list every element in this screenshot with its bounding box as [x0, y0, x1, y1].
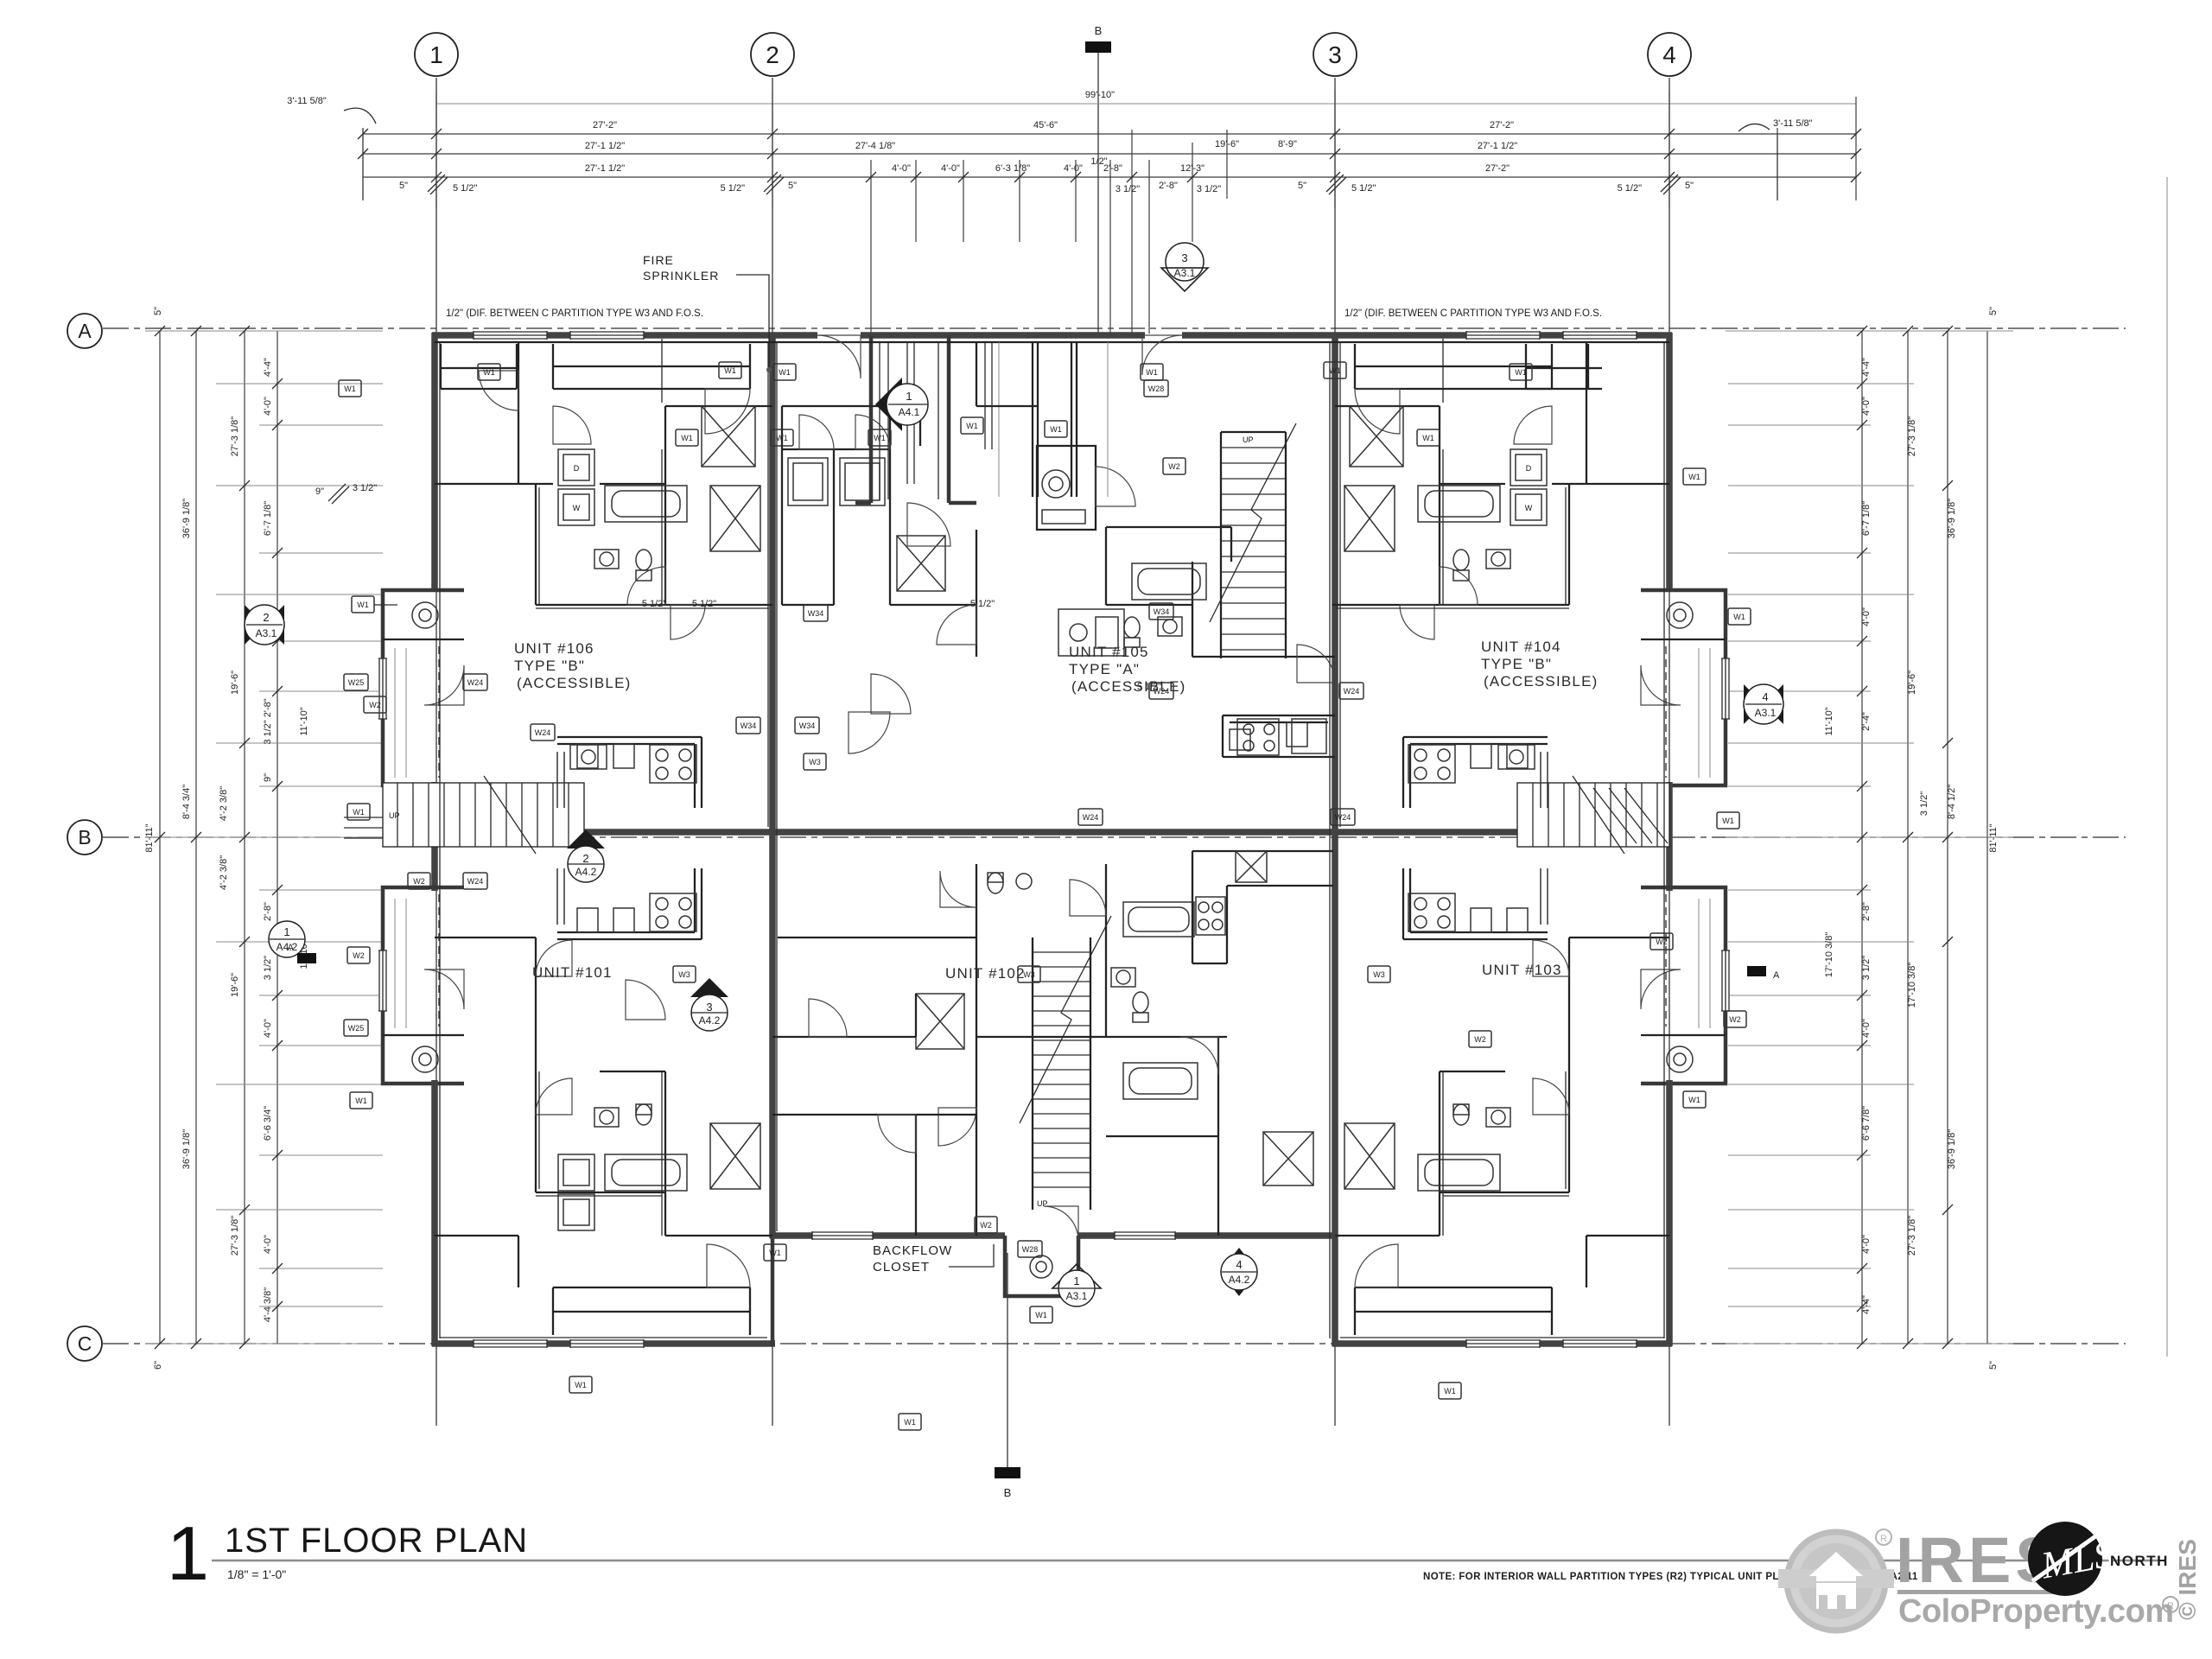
svg-text:3 1/2": 3 1/2" [1116, 184, 1140, 194]
tag W2 interior b [408, 873, 430, 889]
unit105 laundry inner doors [799, 415, 834, 449]
svg-text:W2: W2 [353, 951, 365, 960]
svg-text:4: 4 [1762, 690, 1768, 703]
unit105 stair rails [1221, 432, 1286, 658]
tag V1 h [1141, 364, 1163, 380]
unit103 closet band [1355, 1287, 1552, 1335]
svg-text:W1: W1 [769, 1249, 781, 1257]
grid bubble 1 [415, 33, 458, 76]
unit101 cabinets [557, 868, 634, 932]
tag W1 j [1510, 364, 1532, 380]
window bottom wall 3 [1466, 1339, 1540, 1348]
svg-text:1: 1 [283, 925, 289, 938]
title rule [212, 1560, 2160, 1562]
tag W1 u [773, 364, 796, 380]
svg-text:W25: W25 [348, 1024, 365, 1033]
tag W2 r [1650, 933, 1673, 950]
exterior bottom wall left block [432, 1340, 775, 1347]
window u102 south 1 [812, 1231, 873, 1240]
unit104 laundry stack [1510, 449, 1547, 525]
tag W2 left wall c [347, 947, 370, 963]
svg-text:W: W [1525, 504, 1533, 512]
tag W2 s [975, 1217, 997, 1233]
svg-text:W3: W3 [1373, 970, 1385, 979]
unit102 backflow fixture [1030, 1255, 1052, 1278]
IRES underline [1897, 1590, 2058, 1594]
party wall row B left block [383, 829, 772, 836]
svg-text:2: 2 [766, 41, 779, 68]
dimension line row 2 [363, 133, 1856, 135]
svg-text:W1: W1 [874, 434, 886, 442]
svg-text:81'-11": 81'-11" [1988, 823, 1999, 852]
svg-text:27'-2": 27'-2" [1490, 120, 1514, 130]
unit101 bedroom partitions [435, 938, 536, 1071]
svg-text:2'-8": 2'-8" [1159, 181, 1178, 191]
unit104 linen closet [1344, 486, 1395, 551]
svg-text:W: W [573, 504, 581, 512]
unit105 entry bath door [1096, 467, 1135, 506]
svg-text:W1: W1 [1515, 368, 1527, 377]
tag W3 mid b [1018, 966, 1040, 982]
svg-text:8'-4 1/2": 8'-4 1/2" [1947, 785, 1957, 819]
svg-text:W28: W28 [1022, 1245, 1039, 1254]
tag W1 p [764, 1244, 786, 1261]
unit101 stove [650, 893, 696, 931]
unit101 linen closet [710, 1123, 760, 1189]
svg-text:4'-2 3/8": 4'-2 3/8" [219, 855, 229, 890]
svg-text:5 1/2": 5 1/2" [642, 599, 666, 609]
svg-text:© IRES: © IRES [2174, 1539, 2201, 1620]
tag W1 left wall a [352, 596, 374, 613]
unit103 bath cluster [1335, 1071, 1569, 1236]
window top wall 4 [1563, 331, 1637, 340]
svg-text:19'-6": 19'-6" [230, 671, 240, 695]
row bubble B [67, 820, 102, 855]
svg-text:W1: W1 [575, 1381, 587, 1389]
svg-text:4'-0": 4'-0" [263, 1235, 273, 1254]
unit101 bath cluster [536, 1071, 772, 1236]
callout 1/A3.1 [1052, 1264, 1101, 1288]
svg-text:A3.1: A3.1 [1174, 267, 1196, 279]
unit104 entry door arc [1355, 389, 1400, 434]
svg-text:W2: W2 [1656, 938, 1668, 946]
svg-text:4'-2 3/8": 4'-2 3/8" [219, 786, 229, 821]
svg-text:W1: W1 [1688, 1096, 1700, 1104]
svg-text:4'-0": 4'-0" [263, 397, 273, 416]
unit106 bedroom door arcs [479, 371, 518, 410]
tag W28 t [1018, 1241, 1042, 1257]
BUILDING_WALLS [378, 331, 1730, 1348]
left dim chain lines [160, 331, 277, 1344]
svg-text:17'-10 3/8": 17'-10 3/8" [1907, 963, 1917, 1008]
porch rails top center [880, 342, 992, 499]
unit101 laundry stack [558, 1154, 594, 1230]
unit102 wc pair upper [988, 873, 1003, 893]
svg-text:BACKFLOW: BACKFLOW [873, 1243, 952, 1258]
svg-text:6'-7 1/8": 6'-7 1/8" [1861, 501, 1872, 536]
svg-text:3 1/2": 3 1/2" [1919, 791, 1929, 816]
unit104 cabinets [1471, 744, 1548, 808]
svg-text:W1: W1 [353, 808, 365, 817]
unit105 island counter [1058, 609, 1124, 656]
tag W2 stair [1163, 458, 1185, 474]
svg-text:W24: W24 [535, 728, 551, 737]
svg-text:W24: W24 [467, 678, 484, 687]
row line A [103, 327, 2126, 329]
row line B [103, 836, 2126, 838]
unit106 kitchen counter [557, 737, 702, 808]
svg-text:W24: W24 [1335, 813, 1351, 822]
exterior left wall lower [431, 1080, 438, 1346]
svg-text:9": 9" [315, 486, 324, 497]
svg-text:B: B [1004, 1486, 1012, 1499]
unit106 entry closet [441, 344, 517, 389]
svg-text:W34: W34 [1154, 607, 1170, 616]
svg-text:C: C [78, 1332, 92, 1355]
unit102 closet X [916, 994, 964, 1049]
svg-text:5 1/2": 5 1/2" [1351, 183, 1376, 194]
tag W3 mid c [673, 966, 696, 982]
svg-text:27'-1 1/2": 27'-1 1/2" [585, 141, 625, 151]
tag W24 stair [1149, 683, 1173, 699]
svg-text:3 1/2": 3 1/2" [353, 483, 377, 493]
svg-text:4'-4": 4'-4" [263, 358, 273, 377]
svg-text:4: 4 [1662, 41, 1676, 68]
svg-text:3'-11 5/8": 3'-11 5/8" [1773, 118, 1813, 129]
tag W2 interior a [364, 696, 386, 713]
unit105 laundry rooms [782, 406, 976, 657]
tag W2 top r [1469, 1031, 1491, 1047]
svg-text:W24: W24 [1154, 687, 1170, 696]
unit106 closet band [553, 344, 750, 389]
unit102 bedroom walls [772, 1037, 1218, 1236]
svg-text:36'-9 1/8": 36'-9 1/8" [1947, 499, 1957, 538]
svg-text:11'-10": 11'-10" [299, 707, 309, 735]
right section callout 4/A3.1 [1764, 684, 1783, 724]
unit106 sink counter [570, 745, 607, 769]
svg-text:3: 3 [1181, 251, 1187, 264]
left witness ticks [145, 331, 383, 1344]
row line C [103, 1343, 2126, 1344]
window top wall 2 [570, 331, 644, 340]
svg-text:3 1/2": 3 1/2" [1861, 956, 1872, 980]
column line 1 [435, 78, 437, 1426]
tag W1 left wall b [347, 804, 370, 820]
svg-text:W2: W2 [413, 877, 425, 886]
svg-text:UNIT #104: UNIT #104 [1481, 639, 1561, 655]
right dim chain lines [1862, 331, 1987, 1344]
svg-text:27'-3 1/8": 27'-3 1/8" [1907, 416, 1917, 456]
svg-text:CLOSET: CLOSET [873, 1260, 930, 1274]
unit102 closet X2 [1263, 1132, 1313, 1185]
unit105 stair treads [1221, 448, 1286, 650]
svg-text:W1: W1 [1035, 1311, 1047, 1319]
svg-text:W1: W1 [966, 422, 978, 430]
svg-text:UNIT #106: UNIT #106 [514, 640, 594, 657]
stud offset ticks at grid 4 [1661, 175, 1681, 194]
svg-text:5 1/2": 5 1/2" [721, 183, 745, 194]
svg-text:UP: UP [1243, 435, 1254, 444]
svg-text:5": 5" [1988, 307, 1999, 315]
svg-text:W3: W3 [678, 970, 690, 979]
svg-text:W1: W1 [904, 1418, 916, 1427]
grid bubble 4 [1648, 33, 1691, 76]
MLS ball [2028, 1522, 2102, 1596]
unit105 entry vestibule walls [855, 335, 976, 503]
svg-text:UNIT #105: UNIT #105 [1069, 644, 1149, 660]
svg-text:A3.1: A3.1 [256, 627, 277, 639]
svg-text:UP: UP [1037, 1199, 1048, 1208]
svg-text:W1: W1 [1146, 368, 1158, 377]
exterior bottom wall right block [1332, 1340, 1672, 1347]
svg-text:1: 1 [429, 41, 443, 68]
unit105 hall closet X [897, 536, 945, 591]
svg-text:27'-2": 27'-2" [1485, 163, 1510, 174]
svg-text:27'-4 1/8": 27'-4 1/8" [855, 141, 895, 151]
svg-text:R: R [1880, 1534, 1887, 1544]
svg-text:1/2": 1/2" [1090, 156, 1107, 167]
svg-text:27'-3 1/8": 27'-3 1/8" [230, 416, 240, 456]
svg-text:UNIT #102: UNIT #102 [945, 965, 1026, 982]
window right wall a [1721, 658, 1730, 719]
left section callout 2/A3.1 [245, 605, 264, 645]
svg-text:(ACCESSIBLE): (ACCESSIBLE) [517, 675, 632, 691]
window u102 south 2 [1115, 1231, 1175, 1240]
exterior left wall upper [431, 333, 438, 590]
dimension witness verticals [363, 91, 1856, 334]
svg-text:27'-3 1/8": 27'-3 1/8" [230, 1216, 240, 1255]
svg-text:1ST FLOOR PLAN: 1ST FLOOR PLAN [225, 1522, 528, 1560]
svg-text:W1: W1 [344, 385, 356, 393]
svg-text:4: 4 [1236, 1258, 1242, 1271]
svg-text:A: A [78, 320, 92, 342]
svg-text:W3: W3 [809, 758, 821, 766]
unit103 bedroom closet [1586, 1236, 1669, 1287]
patio room right lower [1641, 1034, 1726, 1036]
svg-text:W34: W34 [799, 721, 816, 730]
svg-text:4'-0": 4'-0" [263, 1019, 273, 1038]
svg-text:4'-4": 4'-4" [1861, 358, 1872, 377]
tag W34 b [1149, 603, 1173, 620]
unit103 cabinets [1471, 868, 1548, 932]
svg-text:(ACCESSIBLE): (ACCESSIBLE) [1484, 673, 1599, 690]
unit103 door arcs [1355, 1244, 1398, 1287]
svg-text:W1: W1 [779, 368, 791, 377]
svg-text:19'-6": 19'-6" [1907, 671, 1917, 695]
svg-text:W25: W25 [348, 678, 365, 687]
tag W28 [1144, 380, 1168, 397]
tag W1 r2 [1717, 812, 1739, 829]
tag W24 b [463, 873, 487, 889]
unit102 stair treads [1033, 952, 1090, 1187]
svg-text:W2: W2 [1168, 462, 1180, 471]
callout 2/A4.2 [567, 829, 605, 849]
svg-text:4'-0": 4'-0" [1861, 607, 1872, 626]
tag W24 a [463, 674, 487, 690]
unit105 upper partition [976, 342, 1231, 605]
WATERMARK [1778, 1522, 2201, 1630]
svg-text:FIRE: FIRE [643, 253, 674, 267]
tag W1 b [719, 362, 741, 378]
svg-text:W2: W2 [1474, 1035, 1486, 1044]
left tick slashes [155, 326, 283, 1349]
unit104 hall partitions [1332, 342, 1669, 605]
unit105 entry bath [1037, 446, 1096, 530]
unit102 stair break [1020, 916, 1111, 1123]
tag W25 a [344, 674, 368, 690]
svg-text:2'-8": 2'-8" [1861, 902, 1872, 921]
svg-text:5": 5" [1298, 181, 1306, 191]
svg-text:5 1/2": 5 1/2" [1618, 183, 1642, 194]
unit102 door arcs extra [878, 1115, 916, 1153]
overall dimension line 99'-10" [436, 103, 1856, 105]
unit103 stove [1408, 893, 1455, 931]
svg-text:W1: W1 [1722, 817, 1734, 825]
svg-text:1/2" (DIF. BETWEEN C PARTITION: 1/2" (DIF. BETWEEN C PARTITION TYPE W3 A… [1344, 308, 1602, 319]
svg-text:27'-1 1/2": 27'-1 1/2" [1478, 141, 1517, 151]
svg-text:27'-3 1/8": 27'-3 1/8" [1907, 1216, 1917, 1255]
svg-text:W2: W2 [980, 1221, 992, 1230]
svg-text:W1: W1 [724, 366, 736, 375]
unit104 shower stall [1350, 406, 1403, 467]
svg-text:5 1/2": 5 1/2" [453, 183, 477, 194]
tag W24 o [1331, 809, 1355, 825]
svg-text:4'-0": 4'-0" [1861, 397, 1872, 416]
svg-text:4'-4": 4'-4" [1861, 1295, 1872, 1314]
unit106 bath door arcs [553, 406, 591, 444]
unit105 fridge [1292, 719, 1326, 753]
backflow closet [1005, 1236, 1078, 1296]
matchline A marker right [1747, 966, 1766, 976]
tag W1 bottom b [1439, 1382, 1461, 1399]
matchline B bottom [1007, 1253, 1008, 1467]
svg-text:UNIT #103: UNIT #103 [1482, 962, 1562, 978]
svg-text:W1: W1 [1050, 425, 1062, 434]
svg-text:W1: W1 [1688, 473, 1700, 481]
svg-text:B: B [1095, 24, 1103, 37]
party wall grid3 [1332, 333, 1338, 1346]
right witness ticks [1726, 331, 2013, 1344]
bump room sliders dashed [439, 646, 1666, 1027]
svg-text:5": 5" [399, 181, 408, 191]
left patio room lower [383, 887, 464, 1084]
tag W2 right wall c [1724, 1011, 1746, 1027]
row bubble C [67, 1326, 102, 1361]
svg-text:A: A [288, 943, 295, 953]
tag W1 g [1045, 421, 1067, 437]
unit104 sink [1486, 550, 1510, 569]
grid bubble 2 [751, 33, 794, 76]
svg-text:3 1/2": 3 1/2" [1197, 184, 1221, 194]
unit104 sink counter [1498, 745, 1535, 769]
unit104 bath door arcs [1514, 406, 1552, 444]
unit105 stove [1237, 719, 1279, 755]
unit106 shower stall [702, 406, 755, 467]
svg-text:W3: W3 [1023, 970, 1035, 979]
exterior top wall [432, 332, 1672, 339]
svg-text:W1: W1 [1422, 434, 1434, 442]
unit106 linen closet [710, 486, 760, 551]
svg-text:4'-0": 4'-0" [1861, 1019, 1872, 1038]
unit103 linen closet [1344, 1123, 1395, 1189]
svg-text:A3.1: A3.1 [1755, 707, 1777, 719]
tag W1 right wall a [1728, 608, 1751, 625]
tag W24 right [1339, 683, 1363, 699]
tag W34 m [736, 717, 760, 734]
right wall mid [1666, 782, 1673, 891]
window left wall b [378, 950, 387, 1011]
tag W1 d [676, 429, 698, 446]
svg-text:TYPE "B": TYPE "B" [1481, 656, 1552, 672]
tag W1 c [961, 417, 983, 434]
tag W1 right wall d [1683, 1091, 1706, 1108]
stud offset ticks at grid 1 [428, 175, 448, 194]
window top wall 1 [474, 331, 547, 340]
unit102 door arcs [938, 1108, 976, 1146]
svg-text:NORTH: NORTH [2110, 1553, 2169, 1569]
callout 1/A4.1 [875, 378, 902, 431]
svg-text:3: 3 [1328, 41, 1342, 68]
row bubble A [67, 314, 102, 348]
svg-text:17'-10 3/8": 17'-10 3/8" [1824, 932, 1834, 978]
unit104 entry closet [1526, 344, 1602, 389]
svg-text:W1: W1 [1444, 1387, 1456, 1395]
unit102 bath block [976, 864, 1227, 1236]
svg-text:TYPE "B": TYPE "B" [514, 658, 585, 674]
svg-text:1: 1 [906, 390, 912, 403]
svg-text:6'-7 1/8": 6'-7 1/8" [263, 501, 273, 536]
dimension tick slashes row2-4 [358, 129, 1861, 182]
tag W1 q [1030, 1306, 1052, 1323]
window bottom wall 2 [570, 1339, 644, 1348]
svg-text:2'-4": 2'-4" [1861, 712, 1872, 731]
unit101 wall cavity lines [536, 1071, 662, 1236]
svg-text:W24: W24 [1344, 687, 1360, 696]
exterior right wall lower [1666, 1080, 1673, 1346]
unit101 closet band [553, 1287, 750, 1335]
unit102 fridge [1236, 851, 1267, 882]
unit103 wall cavity lines [1443, 1071, 1569, 1236]
unit106 hall partitions [435, 342, 772, 605]
svg-text:3 1/2" 2'-8": 3 1/2" 2'-8" [263, 698, 273, 744]
svg-text:4'-0": 4'-0" [1064, 163, 1083, 174]
TOP_DIMENSIONS [287, 90, 1861, 334]
window bottom wall 1 [474, 1339, 547, 1348]
tag W1 k [1417, 429, 1440, 446]
matchline A marker left [297, 953, 316, 963]
svg-text:1/2" (DIF. BETWEEN C PARTITION: 1/2" (DIF. BETWEEN C PARTITION TYPE W3 A… [446, 308, 703, 319]
svg-text:W34: W34 [808, 609, 824, 618]
tag W1 f [868, 429, 891, 446]
svg-text:W24: W24 [467, 877, 484, 886]
svg-text:4'-0": 4'-0" [941, 163, 960, 174]
right patio room upper [1641, 590, 1726, 785]
unit104 wall cavity lines [1336, 339, 1569, 608]
unit106 tub [605, 486, 687, 522]
svg-text:W1: W1 [357, 601, 369, 609]
svg-text:19'-6": 19'-6" [230, 973, 240, 997]
center block south wall [770, 1232, 1338, 1239]
TITLE_BLOCK [167, 1510, 2160, 1596]
svg-text:2: 2 [263, 611, 269, 624]
party wall grid2 [769, 333, 776, 1238]
party wall row B center block [772, 829, 1335, 836]
svg-text:A4.2: A4.2 [575, 866, 597, 878]
unit101 bedroom closet [435, 1236, 518, 1287]
svg-text:W1: W1 [1329, 366, 1341, 375]
wall inner faces [440, 342, 1664, 1338]
svg-text:D: D [574, 464, 580, 473]
